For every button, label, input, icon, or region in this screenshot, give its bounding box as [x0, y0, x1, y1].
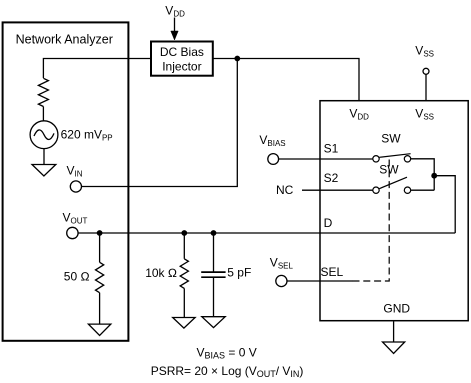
svg-text:PSRR= 20 × Log (VOUT/ VIN): PSRR= 20 × Log (VOUT/ VIN) — [151, 364, 304, 379]
node VSS supply — [415, 44, 434, 101]
svg-text:5 pF: 5 pF — [227, 265, 251, 279]
box: DC Bias Injector — [151, 42, 213, 76]
AC source 620 mVPP — [30, 121, 113, 149]
wire: DC Bias Injector output to IC VDD pin — [213, 59, 359, 101]
svg-text:SEL: SEL — [321, 265, 344, 279]
node VDD supply label — [165, 4, 185, 41]
svg-text:50 Ω: 50 Ω — [64, 270, 90, 284]
svg-text:S1: S1 — [324, 142, 339, 156]
wire: dashed control line SEL to switches — [352, 160, 389, 282]
svg-text:S2: S2 — [324, 171, 339, 185]
junction dot (50 ohm tap) — [97, 230, 103, 236]
wire: VIN to DC bias node — [82, 59, 238, 187]
wire: SW1 output to common node — [411, 159, 435, 190]
wire: AC source to ground — [43, 149, 45, 165]
svg-text:10k Ω: 10k Ω — [145, 266, 177, 280]
resistor 50 ohm — [64, 233, 104, 324]
resistor (source impedance) — [38, 78, 48, 106]
wire: source top to DC Bias Injector input — [43, 59, 151, 79]
wire: VBIAS to switch S1 — [279, 158, 373, 160]
node VIN — [67, 163, 83, 192]
switch SW (S2) — [373, 163, 411, 194]
junction dot (DC bias output / VIN) — [234, 56, 240, 62]
junction dot (cap tap) — [211, 230, 217, 236]
junction dot (switch common) — [431, 173, 437, 179]
svg-text:Injector: Injector — [162, 60, 201, 74]
box: switch IC — [320, 101, 468, 321]
switch SW (S1) — [373, 132, 411, 163]
resistor 10k ohm — [145, 233, 188, 318]
node VSEL — [270, 256, 294, 287]
wire: NC to switch S2 — [302, 189, 373, 191]
ground (cap) — [202, 317, 225, 328]
svg-text:D: D — [324, 216, 333, 230]
wire: resistor to AC source — [42, 107, 44, 121]
junction dot (10k tap) — [181, 230, 187, 236]
capacitor 5 pF — [201, 233, 251, 317]
ground (IC GND) — [383, 342, 405, 354]
ground (AC source) — [32, 165, 56, 177]
svg-text:Network Analyzer: Network Analyzer — [16, 33, 113, 47]
svg-text:SW: SW — [381, 132, 401, 146]
wire: VSEL to SEL pin — [287, 280, 353, 282]
ground (50 ohm) — [88, 324, 110, 335]
svg-text:GND: GND — [383, 302, 410, 316]
wire: GND pin to ground — [393, 321, 395, 342]
box: Network Analyzer — [3, 22, 129, 340]
wire: common node to D line — [434, 176, 455, 233]
node VOUT — [63, 211, 88, 239]
ground (10k) — [173, 318, 195, 329]
node VBIAS — [259, 133, 285, 164]
wire: VOUT / D line — [78, 232, 455, 234]
wire: SW2 output to common — [411, 189, 435, 191]
svg-text:DC Bias: DC Bias — [160, 45, 204, 59]
svg-text:NC: NC — [276, 183, 294, 197]
